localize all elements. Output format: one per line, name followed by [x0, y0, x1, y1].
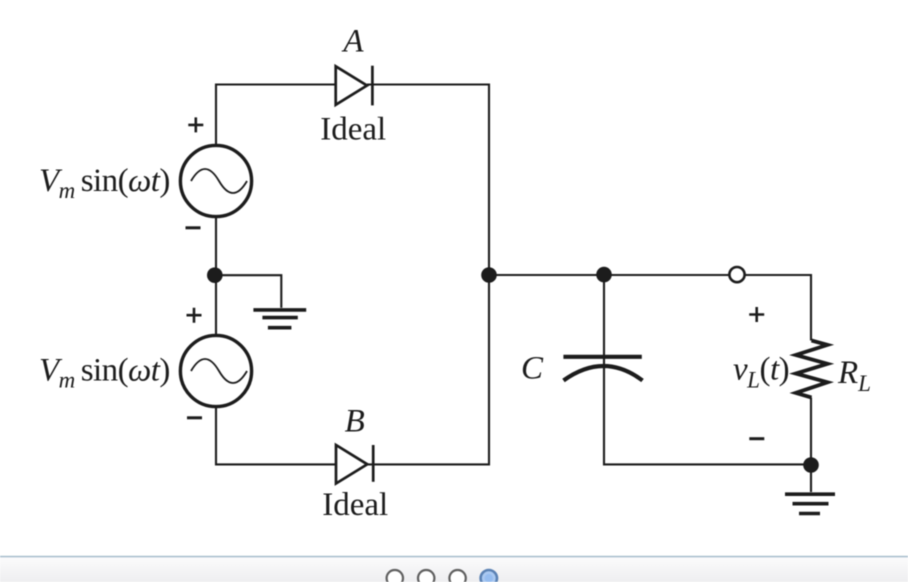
svg-text:A: A	[341, 24, 364, 60]
svg-text:Ideal: Ideal	[322, 487, 388, 523]
svg-text:Ideal: Ideal	[320, 112, 386, 148]
svg-text:vL(t): vL(t)	[733, 352, 789, 393]
svg-text:C: C	[521, 351, 544, 387]
svg-text:B: B	[345, 404, 365, 440]
